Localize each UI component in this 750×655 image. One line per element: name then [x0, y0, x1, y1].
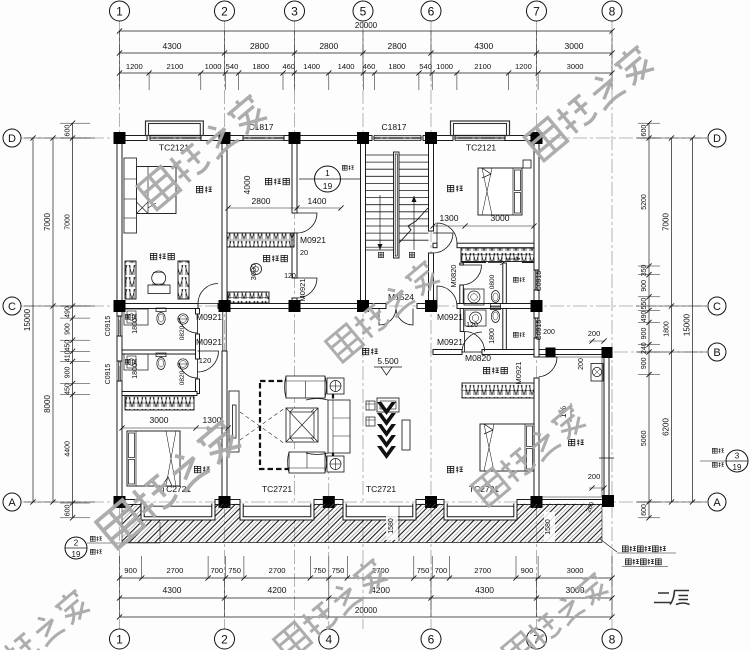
bed bedroom1	[137, 167, 177, 214]
watermark 图纸之家 top-left	[136, 91, 269, 210]
callout label ditto (余同)	[90, 549, 95, 554]
wall: stair east (axis6) seg 2	[429, 253, 434, 304]
svg-text:M0921: M0921	[437, 312, 463, 322]
counter right-mid bath	[465, 310, 486, 326]
svg-text:2: 2	[221, 632, 228, 646]
grid bubble 2 bottom	[215, 629, 235, 649]
callout label ditto (余同)	[712, 462, 717, 467]
svg-text:240: 240	[641, 342, 648, 354]
column at C/431	[425, 300, 437, 312]
grid bubble 8 top	[602, 1, 622, 21]
column at D/120	[114, 132, 126, 144]
stair center wall	[394, 152, 400, 258]
svg-text:M0921: M0921	[298, 279, 307, 302]
left dimension column: 15000 overall	[32, 138, 34, 502]
svg-text:C0915: C0915	[105, 364, 112, 385]
column at A/431	[425, 496, 437, 508]
wall: terrace east railing	[604, 350, 609, 505]
axis line A	[21, 501, 707, 503]
top dimension row: minor chain	[120, 72, 613, 74]
svg-text:M0921: M0921	[300, 235, 326, 245]
svg-text:3: 3	[735, 452, 740, 461]
watermark 图纸之家 bottom-left corner (partial)	[0, 587, 92, 655]
svg-text:1800: 1800	[132, 318, 139, 334]
double door M1524 living room entry	[379, 309, 413, 326]
svg-text:2700: 2700	[474, 566, 491, 575]
svg-text:1800: 1800	[132, 363, 139, 379]
svg-text:540: 540	[419, 62, 432, 71]
svg-text:8000: 8000	[43, 395, 52, 413]
leader to awning note	[600, 539, 617, 552]
bay window TC2721 #1 body	[141, 504, 215, 520]
wardrobe shelf bedroom2 suite	[461, 248, 534, 262]
vertical dim 1580 at terrace SW	[544, 512, 555, 542]
svg-text:1000: 1000	[436, 62, 453, 71]
stair down arrow	[379, 195, 381, 250]
label railing (护栏)	[342, 165, 347, 170]
wall: top exterior seg A1	[117, 136, 147, 141]
window C1817 stair glazing	[374, 135, 421, 137]
label stair down (下)	[378, 252, 383, 257]
terrace rail mid tick	[599, 457, 614, 459]
interior dim 3000/1300 bedroom3	[122, 427, 228, 429]
wall: bedroom2 south seg 1	[433, 243, 437, 248]
window C0915 right upper	[533, 270, 535, 290]
svg-text:D: D	[713, 133, 721, 145]
grid bubble A right	[708, 493, 726, 511]
bed bedroom3	[127, 431, 180, 486]
svg-text:200: 200	[588, 329, 601, 338]
svg-text:B: B	[713, 347, 720, 359]
svg-text:4300: 4300	[474, 41, 493, 51]
wardrobe shelf closet bottom	[228, 292, 269, 303]
grid bubble 6 top	[421, 1, 441, 21]
wall: axis2 interior seg 1	[222, 141, 227, 304]
grid bubble 8 bottom	[602, 629, 622, 649]
wall: right exterior seg 2	[534, 290, 539, 318]
svg-text:1: 1	[116, 4, 123, 18]
svg-text:900: 900	[641, 328, 648, 340]
column at C/363	[357, 300, 369, 312]
toilet right-mid bath	[491, 306, 501, 323]
svg-text:M0921: M0921	[514, 362, 523, 385]
svg-text:3000: 3000	[150, 415, 169, 425]
svg-text:200: 200	[578, 358, 585, 370]
svg-text:4000: 4000	[242, 175, 252, 194]
door M0820 bedroom2 bath	[437, 223, 457, 243]
closet desk and chair	[148, 285, 170, 294]
svg-text:350: 350	[641, 264, 648, 276]
callout 3/19 (terrace detail)	[726, 450, 748, 472]
room label closet4 (衣帽间)	[483, 367, 489, 373]
svg-text:2100: 2100	[474, 62, 491, 71]
column at C/224	[219, 300, 231, 312]
column at D/294	[289, 132, 301, 144]
left dimension column: 7000/8000	[52, 138, 54, 502]
svg-text:900: 900	[124, 566, 137, 575]
svg-text:750: 750	[228, 566, 241, 575]
room label terrace (露台)	[568, 439, 574, 445]
wall: terrace north / railing	[539, 350, 609, 355]
svg-text:700: 700	[435, 566, 448, 575]
grid bubble 1 top	[110, 1, 130, 21]
svg-text:1400: 1400	[308, 196, 327, 206]
svg-text:M0820: M0820	[449, 265, 458, 288]
svg-text:4400: 4400	[65, 441, 72, 457]
column at D/363	[357, 132, 369, 144]
column terrace NW	[546, 348, 556, 358]
counter left bath upper	[124, 309, 148, 325]
washbasin left bath upper	[178, 314, 188, 324]
svg-text:20000: 20000	[355, 606, 378, 615]
window TC2121 top-left glazing	[150, 135, 201, 137]
wall: row C seg 4	[457, 304, 534, 309]
cjk label	[625, 559, 631, 565]
room label living room (客厅)	[362, 348, 368, 354]
column at A/224	[219, 496, 231, 508]
door M0820 bedroom4 bath	[462, 332, 482, 352]
room label bedroom3 (卧室)	[194, 466, 200, 472]
door M0921 bedroom3 nook	[198, 351, 219, 372]
svg-text:M0820: M0820	[465, 353, 491, 363]
grid bubble B right	[708, 343, 726, 361]
grid bubble 3 top	[285, 1, 305, 21]
vertical dim 1580 at awning	[386, 508, 398, 540]
terrace slope 1% arrow	[570, 403, 572, 422]
door M0921 corridor lower (axis3)	[297, 278, 317, 298]
grid bubble A left	[3, 493, 21, 511]
svg-text:8: 8	[609, 4, 616, 18]
wall: right bath west seg	[460, 285, 464, 304]
svg-text:4: 4	[325, 632, 332, 646]
wardrobe shelf beauty-room suite	[227, 233, 294, 247]
svg-text:C0915: C0915	[536, 320, 543, 341]
svg-text:900: 900	[65, 366, 72, 378]
interior dim 1300/3000 bedroom2	[433, 225, 534, 227]
svg-text:3000: 3000	[567, 62, 584, 71]
svg-text:540: 540	[226, 62, 239, 71]
bay window TC2721 #3 body	[343, 504, 416, 520]
door 0820 left bath upper	[179, 314, 198, 333]
svg-text:20000: 20000	[355, 21, 378, 30]
axis line 4 (bottom)	[328, 460, 330, 629]
svg-text:700: 700	[210, 566, 223, 575]
svg-text:600: 600	[641, 125, 648, 137]
right extension lines	[636, 137, 707, 139]
svg-text:450: 450	[65, 383, 72, 395]
wardrobe shelf bedroom4	[462, 383, 534, 398]
svg-text:200: 200	[543, 329, 555, 336]
bedside cabinet column bedroom1	[124, 158, 137, 233]
svg-text:5200: 5200	[641, 194, 648, 210]
svg-text:1: 1	[116, 632, 123, 646]
bottom dimension row: overall 20000	[120, 616, 613, 618]
svg-text:TC2721: TC2721	[262, 484, 293, 494]
shelf bottom wall with sliding door opening	[462, 262, 487, 264]
room label bath lower-left (客卫)	[125, 359, 130, 364]
svg-text:1580: 1580	[545, 519, 552, 535]
interior dim 2800/1400 beauty room	[228, 207, 341, 209]
svg-text:M0921: M0921	[196, 337, 222, 347]
svg-text:TC2721: TC2721	[366, 484, 397, 494]
svg-text:1800: 1800	[388, 62, 405, 71]
svg-text:120: 120	[199, 356, 212, 365]
door M0921 right corridor from hall	[437, 286, 457, 306]
svg-text:200: 200	[588, 472, 601, 481]
wall: bottom exterior seg 2	[215, 500, 240, 505]
svg-text:3000: 3000	[491, 213, 510, 223]
wall: right bath partition (lower)	[503, 309, 507, 350]
axis line 5	[362, 21, 364, 629]
svg-text:2: 2	[74, 539, 79, 548]
svg-text:A: A	[713, 497, 721, 509]
stair break line	[399, 208, 428, 243]
right dimension column 7000/1800/6200	[671, 138, 673, 502]
wall: left exterior seg 1	[117, 136, 122, 317]
svg-text:19: 19	[733, 463, 742, 472]
living room carpet (thick dashed border)	[260, 381, 333, 469]
svg-text:1400: 1400	[338, 62, 355, 71]
wall: left exterior seg 2	[117, 336, 122, 361]
svg-text:D: D	[8, 133, 16, 145]
TV cabinet	[229, 391, 239, 452]
svg-text:490: 490	[641, 310, 648, 322]
toilet left bath lower	[156, 353, 166, 370]
svg-text:M0921: M0921	[196, 312, 222, 322]
svg-text:900: 900	[641, 357, 648, 369]
wall: top exterior seg A4	[423, 136, 453, 141]
column at D/536	[531, 132, 543, 144]
wall: row B right seg 1	[433, 350, 462, 355]
wall: left bath east seg 1	[196, 309, 200, 315]
room label bath upper-left (客卫)	[125, 314, 130, 319]
callout 2/19 (bay window detail)	[65, 537, 87, 559]
watermark 图纸之家 top-right	[523, 42, 656, 161]
grid bubble D right	[708, 129, 726, 147]
TV sight dashed lines	[240, 412, 285, 444]
column at C/294	[289, 300, 301, 312]
column at C/536	[531, 300, 543, 312]
wall: bedroom2 south seg 2	[457, 243, 534, 248]
svg-text:6: 6	[428, 632, 435, 646]
svg-text:2800: 2800	[388, 41, 407, 51]
side table south with lamp	[327, 456, 344, 472]
svg-text:1000: 1000	[205, 62, 222, 71]
coffee table	[286, 408, 318, 442]
wall: bottom exterior seg 5	[517, 500, 539, 505]
axis line 6	[430, 21, 432, 629]
awning hatched strip	[122, 504, 602, 543]
svg-text:A: A	[8, 497, 16, 509]
svg-text:C0915: C0915	[105, 316, 112, 337]
axis line 7	[536, 21, 538, 629]
svg-text:1300: 1300	[440, 213, 459, 223]
column at A/329	[323, 496, 335, 508]
wall: left bath east seg 2	[196, 334, 200, 359]
column terrace NE	[602, 347, 613, 358]
wall: axis2 corridor thin partition	[222, 309, 224, 352]
svg-text:1800: 1800	[664, 321, 671, 337]
svg-text:3000: 3000	[565, 41, 584, 51]
svg-text:460: 460	[363, 62, 376, 71]
side table north with lamp	[327, 378, 344, 394]
bedside cabinet bedroom2	[523, 160, 531, 168]
room label bedroom4 (卧室)	[447, 466, 453, 472]
bay window TC2721 #2 body	[240, 504, 314, 520]
svg-text:C: C	[713, 301, 721, 313]
grid bubble 4 bottom	[319, 629, 339, 649]
svg-text:5.500: 5.500	[377, 356, 399, 366]
wall: right exterior seg 4	[534, 378, 539, 505]
svg-text:600: 600	[641, 504, 648, 516]
sideboard right of dining	[402, 420, 410, 450]
callout label bay window (凸窗)	[90, 536, 95, 541]
wall: axis3 interior seg 2	[292, 233, 297, 278]
svg-text:20: 20	[300, 248, 308, 257]
window C0915 left lower	[116, 361, 118, 381]
svg-text:7: 7	[533, 4, 540, 18]
wall: axis3 interior seg 1	[292, 141, 297, 214]
svg-text:600: 600	[65, 504, 72, 516]
wall: left bath divider (row B)	[122, 350, 197, 354]
door 0820 left bath lower	[179, 359, 198, 378]
watermark 图纸之家 bottom-left	[95, 416, 244, 549]
grid bubble C right	[708, 297, 726, 315]
wall: terrace south railing	[539, 500, 609, 505]
svg-text:900: 900	[65, 323, 72, 335]
window C0915 right lower	[533, 318, 535, 338]
svg-text:750: 750	[313, 566, 326, 575]
bed bedroom2	[478, 168, 522, 215]
wardrobe left pair in bedroom1 closet	[125, 261, 136, 299]
svg-text:410: 410	[65, 350, 72, 362]
top dimension row: overall 20000	[120, 30, 613, 32]
dining chairs	[366, 401, 375, 410]
left dimension chain	[72, 123, 74, 518]
stool circle closet (beauty suite)	[251, 264, 262, 275]
svg-text:15000: 15000	[23, 308, 32, 331]
svg-text:1200: 1200	[515, 62, 532, 71]
room label bedroom2 (卧室)	[447, 185, 453, 191]
wall: top exterior seg A2	[201, 136, 243, 141]
callout 1/19 (railing detail)	[299, 178, 361, 180]
room label beauty room (美容室)	[265, 178, 271, 184]
window C1817 left glazing	[243, 135, 284, 137]
svg-text:19: 19	[323, 181, 333, 191]
left extension lines D C A	[24, 137, 95, 139]
callout label terrace (露台)	[712, 448, 717, 453]
title: second floor (二层)	[654, 591, 690, 605]
column terrace SE	[602, 495, 614, 507]
svg-text:1400: 1400	[303, 62, 320, 71]
svg-text:3: 3	[291, 4, 298, 18]
grid bubble 2 top	[215, 1, 235, 21]
room label closet1 (衣帽间)	[150, 253, 156, 259]
svg-text:4300: 4300	[163, 585, 182, 595]
svg-text:1200: 1200	[126, 62, 143, 71]
svg-text:1: 1	[325, 168, 330, 178]
grid bubble 7 top	[527, 1, 547, 21]
cjk label	[622, 546, 628, 552]
room label bath right (客卫)	[513, 332, 518, 337]
svg-text:4300: 4300	[475, 585, 494, 595]
terrace inner rail line	[539, 356, 602, 358]
column at A/120	[114, 496, 126, 508]
axis line 3	[294, 21, 296, 629]
svg-text:C: C	[8, 301, 16, 313]
top extension lines	[119, 31, 121, 73]
svg-text:1800: 1800	[252, 62, 269, 71]
counter right-top bath	[464, 289, 484, 305]
grid bubble 6 bottom	[421, 629, 441, 649]
top dimension row: major spans	[120, 52, 613, 54]
bottom dimension row: minor chain	[120, 577, 613, 579]
washbasin left bath lower	[178, 359, 188, 369]
wall: right exterior seg 1	[534, 136, 539, 271]
wall: top exterior seg A5	[505, 136, 539, 141]
svg-text:8: 8	[609, 632, 616, 646]
svg-text:TC2121: TC2121	[466, 143, 497, 153]
svg-text:450: 450	[65, 340, 72, 352]
wall: bottom exterior seg 1	[117, 500, 141, 505]
svg-text:460: 460	[282, 62, 295, 71]
stair treads left flight	[366, 154, 394, 156]
svg-text:4300: 4300	[163, 41, 182, 51]
svg-text:3000: 3000	[567, 566, 584, 575]
wall: left exterior seg 3	[117, 381, 122, 505]
grid bubble 1 bottom	[110, 629, 130, 649]
svg-text:2100: 2100	[166, 62, 183, 71]
svg-text:1800: 1800	[489, 328, 496, 344]
terrace floor drain	[591, 364, 603, 382]
wall: right corridor east seg	[460, 309, 464, 332]
axis line C	[21, 305, 707, 307]
window TC2121 top-right glazing	[455, 135, 505, 137]
svg-text:750: 750	[332, 566, 345, 575]
decorative plant (dark chevrons)	[377, 402, 396, 415]
svg-text:5: 5	[360, 4, 367, 18]
svg-text:19: 19	[72, 550, 81, 559]
svg-text:7000: 7000	[65, 214, 72, 230]
right dimension column 15000	[692, 138, 694, 502]
wall: bottom exterior seg 4	[416, 500, 444, 505]
stair bottom edge	[366, 249, 394, 251]
svg-text:0820: 0820	[179, 370, 186, 385]
wall: left bath east seg 3	[196, 379, 200, 394]
room label bedroom1 (卧室)	[196, 186, 202, 192]
watermark 图纸之家 bottom-right	[501, 570, 611, 655]
svg-text:2800: 2800	[252, 196, 271, 206]
bay window TC2721 #4 body	[444, 504, 517, 520]
svg-text:6: 6	[428, 4, 435, 18]
svg-text:750: 750	[417, 566, 430, 575]
svg-text:15000: 15000	[683, 313, 692, 336]
dining table	[377, 398, 399, 412]
right dimension chain	[648, 123, 650, 518]
svg-text:C0915: C0915	[536, 271, 543, 292]
axis line B	[430, 351, 707, 353]
toilet left bath upper	[156, 308, 166, 325]
grid bubble C left	[3, 297, 21, 315]
door M0921 bedroom1 (swings up-left)	[198, 284, 218, 304]
toilet right-top bath	[491, 291, 501, 308]
grid bubble 7 bottom	[527, 629, 547, 649]
svg-text:2800: 2800	[250, 41, 269, 51]
bottom dimension row: major spans	[120, 597, 613, 599]
bed bedroom4	[480, 424, 534, 471]
counter left bath lower	[124, 354, 148, 370]
axis line 1	[119, 21, 121, 629]
